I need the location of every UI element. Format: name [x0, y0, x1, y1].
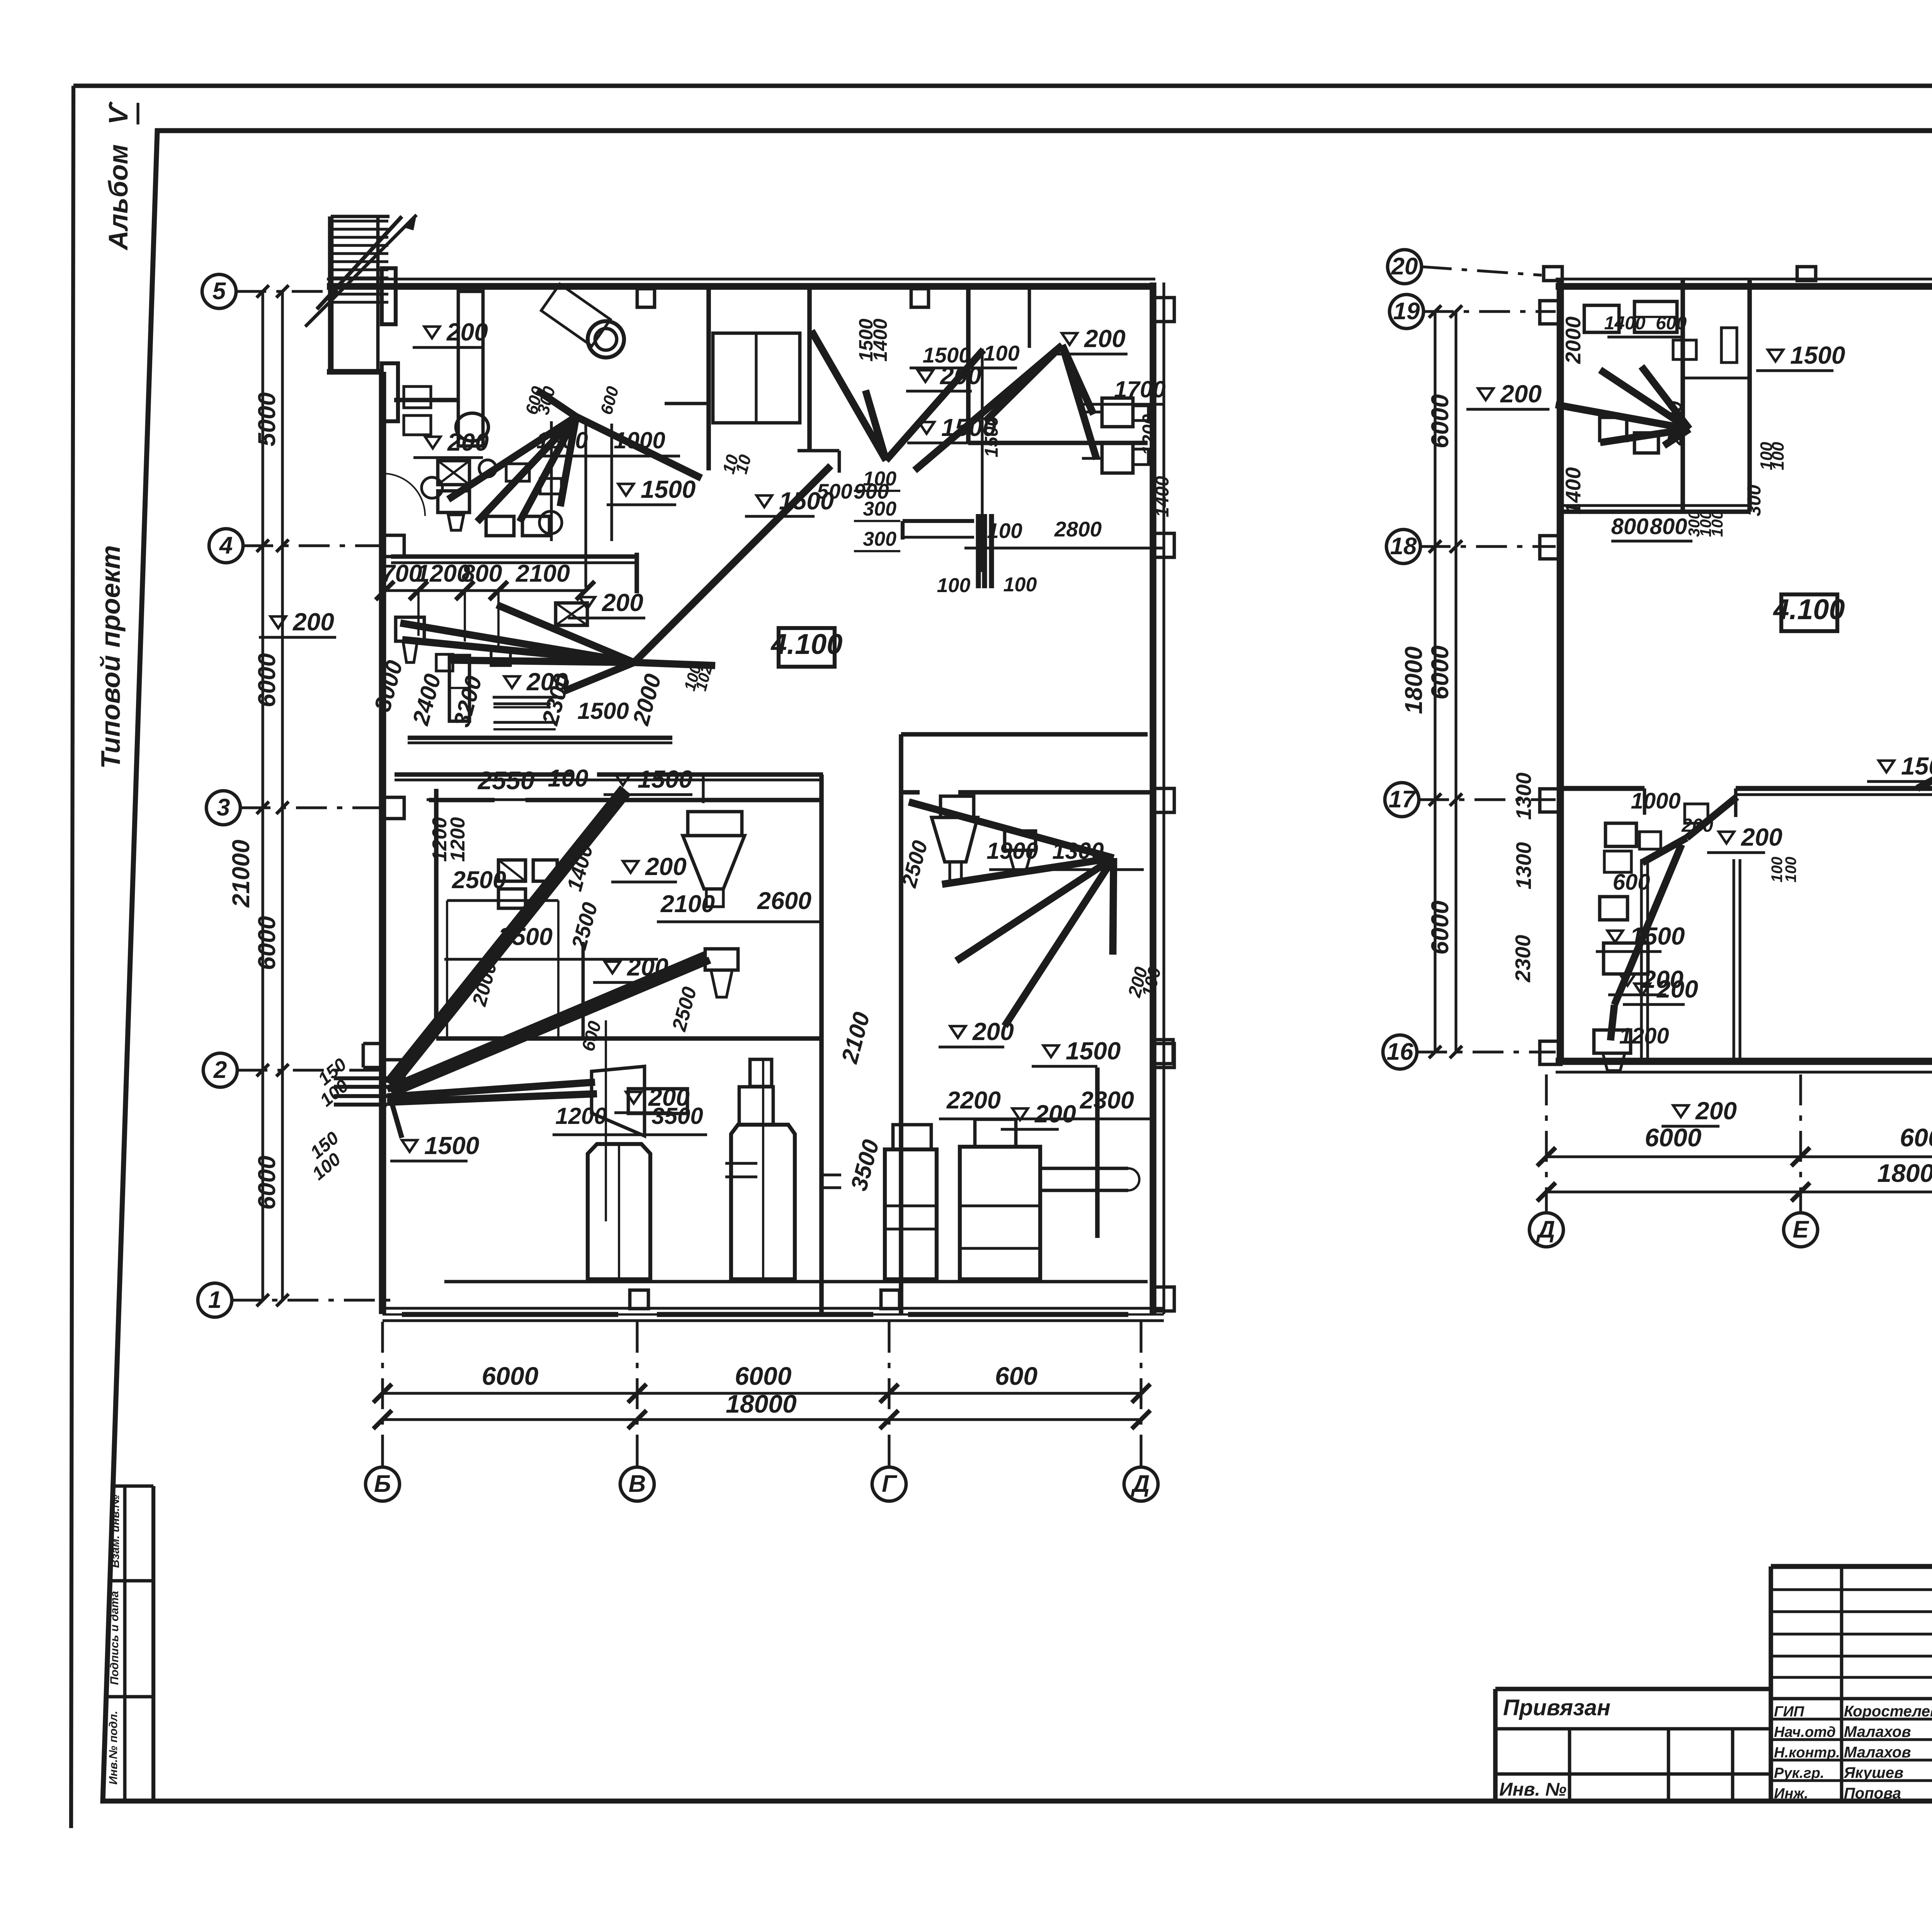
svg-text:1900: 1900	[986, 838, 1038, 864]
svg-text:1400: 1400	[869, 318, 891, 361]
svg-text:2000: 2000	[468, 959, 501, 1009]
svg-text:2400: 2400	[407, 671, 446, 728]
svg-text:100: 100	[1769, 442, 1787, 470]
svg-text:1500: 1500	[1066, 1037, 1121, 1065]
svg-text:6000: 6000	[735, 1362, 792, 1390]
svg-text:Подпись и дата: Подпись и дата	[108, 1591, 121, 1685]
svg-text:200: 200	[1500, 380, 1542, 408]
svg-text:18000: 18000	[726, 1389, 797, 1418]
svg-text:Рук.гр.: Рук.гр.	[1774, 1765, 1824, 1781]
svg-text:1300: 1300	[1512, 842, 1536, 889]
svg-text:Привязан: Привязан	[1503, 1695, 1611, 1720]
svg-text:200: 200	[1695, 1097, 1737, 1125]
svg-text:3000: 3000	[369, 658, 408, 714]
svg-text:1200: 1200	[1619, 1023, 1669, 1049]
svg-text:18000: 18000	[1400, 646, 1427, 714]
svg-text:1300: 1300	[1512, 772, 1536, 820]
svg-text:200: 200	[293, 608, 334, 636]
svg-text:200: 200	[972, 1018, 1014, 1045]
svg-text:1400: 1400	[562, 842, 598, 894]
svg-text:200: 200	[1741, 823, 1782, 851]
svg-text:4: 4	[219, 532, 233, 559]
svg-text:2000: 2000	[628, 671, 666, 728]
svg-text:200: 200	[645, 853, 687, 880]
svg-text:4.100: 4.100	[770, 628, 842, 660]
svg-text:800: 800	[1611, 514, 1649, 539]
svg-text:800: 800	[1650, 514, 1687, 539]
svg-text:ГИП: ГИП	[1774, 1704, 1804, 1720]
svg-text:Инв. №: Инв. №	[1499, 1779, 1566, 1800]
svg-text:1500: 1500	[923, 343, 971, 367]
svg-text:200: 200	[1642, 965, 1684, 993]
svg-text:3500: 3500	[651, 1103, 703, 1129]
svg-text:6000: 6000	[1427, 394, 1454, 448]
svg-text:Нач.отд: Нач.отд	[1774, 1724, 1836, 1740]
svg-text:100: 100	[1003, 574, 1037, 596]
svg-text:18000: 18000	[1877, 1159, 1932, 1187]
svg-text:2200: 2200	[946, 1087, 1001, 1114]
svg-text:1500: 1500	[1630, 922, 1685, 950]
svg-text:Ѵ: Ѵ	[103, 101, 133, 124]
svg-text:20: 20	[1391, 253, 1418, 280]
svg-text:500: 500	[817, 479, 852, 503]
svg-text:300: 300	[1744, 485, 1765, 516]
svg-text:1500: 1500	[577, 698, 629, 724]
svg-text:100: 100	[983, 341, 1019, 365]
svg-text:600: 600	[995, 1362, 1037, 1390]
svg-text:2000: 2000	[1664, 401, 1686, 446]
svg-text:300: 300	[863, 528, 896, 550]
svg-text:2100: 2100	[660, 890, 715, 918]
svg-text:6000: 6000	[1427, 901, 1454, 955]
svg-text:2500: 2500	[452, 867, 506, 894]
svg-text:100: 100	[1782, 857, 1799, 883]
svg-text:2800: 2800	[1054, 517, 1102, 541]
svg-text:5000: 5000	[253, 392, 281, 446]
svg-text:1200: 1200	[1139, 414, 1160, 455]
svg-text:1: 1	[208, 1287, 221, 1313]
svg-text:1000: 1000	[614, 427, 665, 453]
svg-text:200: 200	[447, 428, 489, 456]
svg-text:5: 5	[213, 278, 226, 305]
svg-text:1500: 1500	[641, 475, 696, 503]
svg-text:1500: 1500	[1901, 752, 1932, 780]
svg-text:2100: 2100	[836, 1010, 875, 1066]
svg-text:2300: 2300	[1080, 1087, 1134, 1114]
svg-text:6000: 6000	[253, 653, 281, 707]
svg-text:6000: 6000	[1427, 645, 1454, 700]
svg-text:Типовой проект: Типовой проект	[95, 545, 126, 769]
svg-text:2600: 2600	[757, 887, 811, 914]
svg-text:600: 600	[597, 384, 622, 417]
svg-text:200: 200	[602, 589, 643, 616]
svg-text:1300: 1300	[536, 427, 588, 453]
svg-text:2500: 2500	[668, 984, 701, 1034]
svg-text:1000: 1000	[1631, 788, 1680, 814]
svg-text:2500: 2500	[567, 900, 602, 952]
svg-text:100: 100	[987, 519, 1022, 543]
svg-text:1200: 1200	[447, 817, 469, 862]
svg-text:200: 200	[1034, 1100, 1076, 1128]
svg-text:Б: Б	[374, 1471, 391, 1497]
svg-text:1300: 1300	[1052, 838, 1104, 864]
svg-text:Коростелев: Коростелев	[1844, 1703, 1932, 1720]
svg-text:1500: 1500	[424, 1132, 479, 1159]
svg-text:200: 200	[446, 318, 488, 346]
svg-text:200: 200	[1681, 815, 1713, 836]
svg-text:1500: 1500	[1790, 341, 1845, 369]
svg-text:100: 100	[937, 574, 971, 597]
svg-text:2: 2	[213, 1057, 227, 1083]
svg-text:18: 18	[1390, 533, 1417, 560]
svg-text:100: 100	[1708, 511, 1726, 537]
svg-text:6000: 6000	[1900, 1123, 1932, 1152]
svg-text:Малахов: Малахов	[1844, 1744, 1911, 1761]
svg-text:4.100: 4.100	[1772, 593, 1845, 625]
svg-text:Инв.№ подл.: Инв.№ подл.	[107, 1711, 120, 1784]
svg-text:200: 200	[1084, 325, 1126, 352]
svg-text:Н.контр.: Н.контр.	[1774, 1745, 1840, 1761]
svg-text:Альбом: Альбом	[103, 144, 133, 251]
svg-text:3500: 3500	[498, 923, 553, 950]
svg-text:19: 19	[1393, 298, 1420, 325]
svg-text:600: 600	[1613, 870, 1650, 895]
svg-text:100: 100	[548, 765, 588, 792]
svg-text:1500: 1500	[941, 414, 996, 441]
svg-text:1700: 1700	[1114, 376, 1165, 402]
svg-text:6000: 6000	[253, 916, 281, 970]
svg-text:300: 300	[863, 498, 896, 520]
svg-text:Взам. инв.№: Взам. инв.№	[109, 1495, 122, 1568]
svg-text:Д: Д	[1131, 1471, 1150, 1497]
svg-text:Е: Е	[1793, 1216, 1809, 1243]
svg-text:1200: 1200	[555, 1103, 607, 1129]
svg-text:Якушев: Якушев	[1844, 1764, 1903, 1781]
svg-text:17: 17	[1389, 786, 1416, 813]
svg-text:6000: 6000	[253, 1156, 281, 1210]
svg-text:3200: 3200	[449, 673, 487, 730]
svg-text:Малахов: Малахов	[1844, 1723, 1911, 1740]
svg-text:1400: 1400	[1604, 313, 1646, 334]
svg-text:21000: 21000	[228, 839, 255, 907]
svg-text:2300: 2300	[1511, 935, 1535, 982]
svg-text:100: 100	[863, 468, 896, 490]
svg-text:2000: 2000	[1561, 316, 1585, 364]
svg-text:3500: 3500	[846, 1137, 884, 1193]
svg-text:1400: 1400	[1152, 476, 1173, 517]
svg-text:6000: 6000	[482, 1362, 539, 1390]
svg-text:Д: Д	[1536, 1216, 1555, 1243]
svg-text:В: В	[629, 1471, 646, 1497]
svg-text:16: 16	[1387, 1039, 1413, 1065]
svg-text:200: 200	[627, 953, 668, 981]
svg-text:Инж.: Инж.	[1774, 1786, 1808, 1802]
svg-text:Г: Г	[882, 1471, 898, 1497]
svg-text:Попова: Попова	[1844, 1785, 1901, 1802]
svg-text:600: 600	[1656, 313, 1687, 334]
svg-text:3: 3	[217, 794, 230, 821]
svg-text:1400: 1400	[1561, 467, 1585, 514]
